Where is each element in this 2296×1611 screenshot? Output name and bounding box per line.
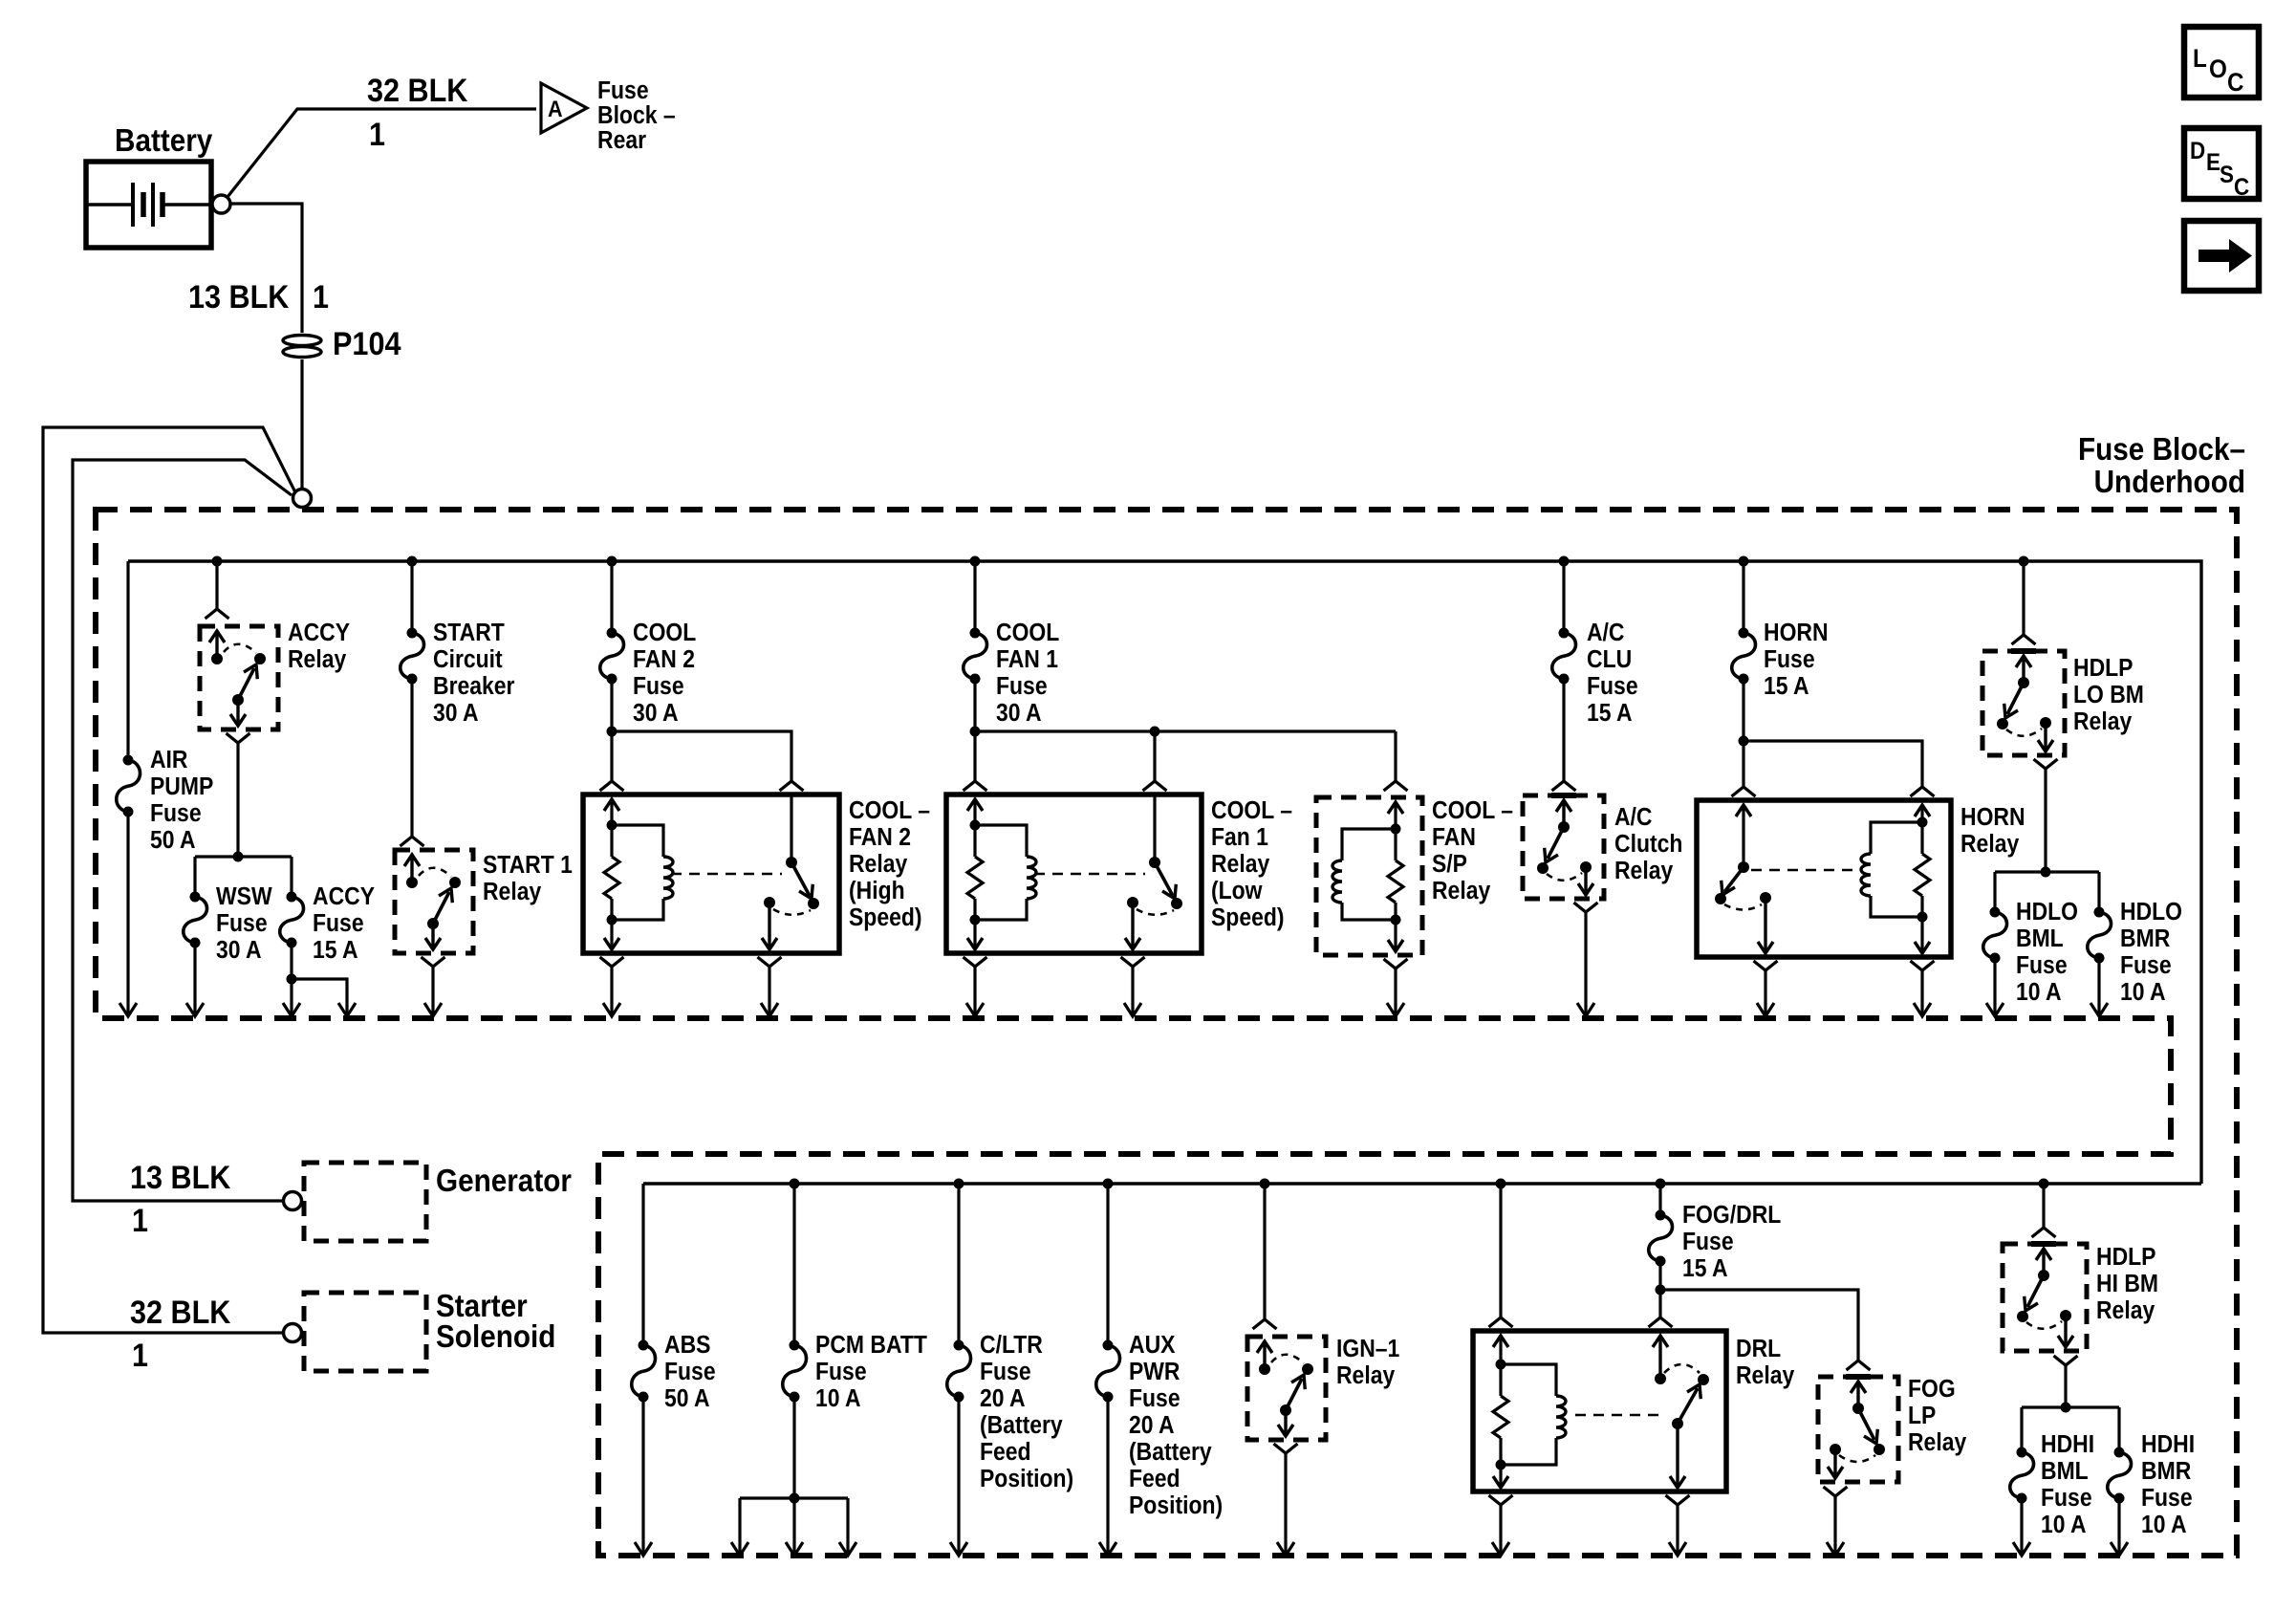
svg-text:Fuse: Fuse: [980, 1359, 1031, 1385]
svg-text:Fuse: Fuse: [1764, 646, 1815, 673]
svg-text:Relay: Relay: [2073, 708, 2133, 735]
svg-text:Fuse: Fuse: [150, 800, 202, 827]
svg-text:AIR: AIR: [150, 747, 188, 773]
svg-text:C: C: [2227, 68, 2244, 97]
svg-text:FAN 2: FAN 2: [849, 824, 911, 851]
svg-text:S/P: S/P: [1432, 851, 1467, 878]
svg-text:FAN 2: FAN 2: [633, 646, 695, 673]
svg-text:1: 1: [132, 1338, 148, 1374]
svg-text:Fuse: Fuse: [216, 910, 268, 937]
svg-text:AUX: AUX: [1129, 1332, 1176, 1359]
svg-text:Fuse: Fuse: [633, 673, 684, 700]
svg-text:Position): Position): [1129, 1492, 1223, 1519]
svg-text:Solenoid: Solenoid: [436, 1318, 555, 1354]
svg-text:PUMP: PUMP: [150, 773, 213, 800]
svg-text:START: START: [433, 620, 505, 646]
svg-text:Breaker: Breaker: [433, 673, 515, 700]
svg-text:Fuse: Fuse: [2016, 952, 2068, 979]
svg-text:Fuse: Fuse: [313, 910, 364, 937]
svg-text:HDLO: HDLO: [2016, 899, 2078, 925]
svg-text:A/C: A/C: [1614, 804, 1653, 831]
svg-text:IGN–1: IGN–1: [1336, 1336, 1399, 1362]
svg-text:Relay: Relay: [1211, 851, 1270, 878]
svg-text:50 A: 50 A: [664, 1385, 710, 1412]
svg-text:Fuse: Fuse: [2120, 952, 2172, 979]
svg-text:ACCY: ACCY: [313, 883, 375, 910]
svg-text:A/C: A/C: [1587, 620, 1625, 646]
svg-text:HDLP: HDLP: [2073, 655, 2134, 682]
svg-text:BML: BML: [2041, 1458, 2089, 1485]
svg-text:(Battery: (Battery: [980, 1412, 1063, 1439]
svg-text:ACCY: ACCY: [288, 620, 350, 646]
svg-text:(Low: (Low: [1211, 878, 1263, 904]
svg-text:LO BM: LO BM: [2073, 682, 2144, 708]
svg-text:(Battery: (Battery: [1129, 1439, 1212, 1466]
svg-text:LP: LP: [1908, 1403, 1936, 1429]
svg-text:Relay: Relay: [483, 879, 542, 905]
svg-text:COOL: COOL: [633, 620, 696, 646]
svg-text:Relay: Relay: [1614, 858, 1674, 884]
svg-text:10 A: 10 A: [815, 1385, 861, 1412]
svg-text:Position): Position): [980, 1466, 1073, 1492]
svg-text:Fuse: Fuse: [2141, 1485, 2193, 1512]
svg-text:Clutch: Clutch: [1614, 831, 1682, 858]
svg-text:C: C: [2234, 174, 2249, 201]
svg-text:PCM BATT: PCM BATT: [815, 1332, 927, 1359]
svg-text:Relay: Relay: [288, 646, 347, 673]
svg-text:Fuse Block–: Fuse Block–: [2078, 431, 2245, 467]
svg-text:ABS: ABS: [664, 1332, 711, 1359]
svg-text:WSW: WSW: [216, 883, 272, 910]
svg-text:10 A: 10 A: [2141, 1512, 2187, 1538]
svg-text:Fuse: Fuse: [996, 673, 1048, 700]
svg-text:BMR: BMR: [2141, 1458, 2191, 1485]
svg-text:Speed): Speed): [1211, 904, 1285, 931]
svg-text:Block –: Block –: [597, 102, 676, 129]
svg-text:Rear: Rear: [597, 127, 646, 154]
svg-text:L: L: [2193, 44, 2207, 73]
svg-text:32 BLK: 32 BLK: [130, 1295, 231, 1331]
svg-text:HI BM: HI BM: [2096, 1271, 2158, 1297]
svg-text:13 BLK: 13 BLK: [130, 1160, 231, 1196]
svg-text:Relay: Relay: [2096, 1297, 2155, 1324]
svg-text:COOL –: COOL –: [849, 797, 930, 824]
svg-text:Generator: Generator: [436, 1163, 572, 1198]
svg-text:COOL: COOL: [996, 620, 1059, 646]
svg-text:Feed: Feed: [1129, 1466, 1180, 1492]
svg-text:20 A: 20 A: [980, 1385, 1026, 1412]
svg-text:FOG: FOG: [1908, 1376, 1956, 1403]
svg-text:HDLO: HDLO: [2120, 899, 2182, 925]
svg-text:C/LTR: C/LTR: [980, 1332, 1043, 1359]
svg-text:15 A: 15 A: [1682, 1255, 1728, 1282]
svg-text:DRL: DRL: [1736, 1336, 1781, 1362]
svg-text:HORN: HORN: [1764, 620, 1829, 646]
svg-text:10 A: 10 A: [2120, 979, 2166, 1006]
svg-text:15 A: 15 A: [313, 937, 358, 964]
svg-text:Fan 1: Fan 1: [1211, 824, 1268, 851]
svg-text:Fuse: Fuse: [815, 1359, 867, 1385]
svg-text:Relay: Relay: [1960, 831, 2020, 858]
svg-text:Fuse: Fuse: [1682, 1229, 1734, 1255]
svg-text:15 A: 15 A: [1587, 700, 1633, 727]
svg-text:20 A: 20 A: [1129, 1412, 1175, 1439]
svg-text:Battery: Battery: [115, 122, 213, 158]
svg-text:1: 1: [313, 279, 329, 316]
svg-text:Underhood: Underhood: [2094, 464, 2245, 499]
svg-text:30 A: 30 A: [216, 937, 262, 964]
svg-text:32 BLK: 32 BLK: [367, 73, 468, 109]
svg-text:Relay: Relay: [1908, 1429, 1967, 1456]
svg-text:13 BLK: 13 BLK: [188, 279, 290, 316]
svg-text:START 1: START 1: [483, 852, 573, 879]
svg-text:P104: P104: [333, 326, 401, 362]
svg-text:Fuse: Fuse: [597, 77, 649, 104]
svg-text:Fuse: Fuse: [2041, 1485, 2092, 1512]
svg-text:BMR: BMR: [2120, 925, 2170, 952]
svg-text:Fuse: Fuse: [664, 1359, 716, 1385]
svg-text:E: E: [2206, 149, 2220, 176]
svg-text:(High: (High: [849, 878, 905, 904]
svg-text:Feed: Feed: [980, 1439, 1031, 1466]
svg-text:O: O: [2209, 54, 2227, 83]
svg-text:Circuit: Circuit: [433, 646, 503, 673]
svg-text:FAN: FAN: [1432, 824, 1476, 851]
svg-text:S: S: [2220, 162, 2234, 188]
svg-text:HDLP: HDLP: [2096, 1244, 2156, 1271]
svg-text:50 A: 50 A: [150, 827, 196, 854]
svg-text:Relay: Relay: [849, 851, 908, 878]
svg-text:Speed): Speed): [849, 904, 922, 931]
svg-text:1: 1: [132, 1203, 148, 1239]
svg-text:30 A: 30 A: [996, 700, 1042, 727]
svg-text:Relay: Relay: [1432, 878, 1491, 904]
svg-text:10 A: 10 A: [2041, 1512, 2087, 1538]
svg-text:Fuse: Fuse: [1587, 673, 1638, 700]
svg-text:CLU: CLU: [1587, 646, 1632, 673]
svg-text:COOL –: COOL –: [1432, 797, 1513, 824]
svg-text:Fuse: Fuse: [1129, 1385, 1180, 1412]
svg-text:HDHI: HDHI: [2141, 1431, 2195, 1458]
svg-text:PWR: PWR: [1129, 1359, 1180, 1385]
svg-text:HDHI: HDHI: [2041, 1431, 2094, 1458]
svg-text:30 A: 30 A: [633, 700, 679, 727]
svg-text:BML: BML: [2016, 925, 2064, 952]
svg-text:Relay: Relay: [1336, 1362, 1396, 1389]
svg-text:30 A: 30 A: [433, 700, 479, 727]
svg-text:D: D: [2190, 138, 2205, 164]
svg-text:HORN: HORN: [1960, 804, 2025, 831]
svg-text:FAN 1: FAN 1: [996, 646, 1058, 673]
svg-text:Relay: Relay: [1736, 1362, 1795, 1389]
svg-text:15 A: 15 A: [1764, 673, 1809, 700]
svg-text:COOL –: COOL –: [1211, 797, 1292, 824]
svg-text:FOG/DRL: FOG/DRL: [1682, 1202, 1781, 1229]
svg-text:1: 1: [369, 117, 385, 153]
svg-text:A: A: [548, 97, 563, 122]
svg-text:10 A: 10 A: [2016, 979, 2062, 1006]
